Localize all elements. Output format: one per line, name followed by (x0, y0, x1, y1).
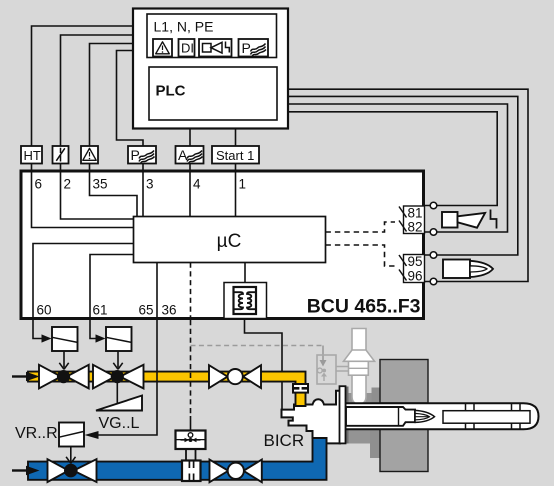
A-air box (176, 146, 204, 164)
wire PLC bottom to Start1 box (235, 129, 237, 147)
svg-text:36: 36 (162, 303, 177, 318)
switch box (53, 146, 69, 164)
solenoid actuator V1 (52, 327, 78, 351)
ghost funnel flare (344, 350, 375, 361)
wire switch to pin 2 to uC (61, 164, 134, 220)
ignition cable wire (245, 318, 283, 410)
air inlet arrow (12, 469, 27, 471)
gas valve V2 (93, 365, 115, 389)
gas pipe union fitting (293, 384, 308, 393)
microcontroller uC box (134, 217, 326, 263)
svg-text:1: 1 (239, 177, 247, 192)
arrow actuator V1 to valve (59, 351, 68, 369)
P-air icon box top (239, 39, 269, 57)
burner lance outer tube (346, 403, 539, 429)
svg-text:A: A (178, 147, 188, 163)
wire uC to ignition transformer (244, 263, 246, 283)
ghost air pressure sensor box (317, 355, 336, 384)
svg-text:81: 81 (408, 206, 423, 221)
Start1 box (212, 146, 259, 164)
dashed wire uC to relay 95-96 (326, 245, 396, 266)
BCU 465 main box (21, 171, 424, 319)
arrow actuator V2 to valve (113, 351, 122, 369)
svg-text:HT: HT (24, 148, 41, 163)
air butterfly control valve (210, 460, 229, 483)
wire uC to pin 60 (33, 244, 134, 320)
svg-text:VG..L: VG..L (99, 415, 140, 432)
ghost air supply pipe (352, 329, 366, 405)
wire terminal 61 to V2 actuator (90, 320, 96, 339)
wire PLC to HT box (32, 26, 134, 146)
relay contact box 95 96 (404, 255, 425, 283)
valve icon box (199, 39, 232, 57)
wire Start1 to pin 1 to uC (235, 164, 237, 217)
lance inner rod (443, 411, 530, 424)
flame at nozzle (415, 410, 435, 422)
terminal 81 circle and wire to PLC (288, 112, 497, 206)
wire PLC to switch box (61, 35, 134, 146)
svg-text:PLC: PLC (156, 83, 186, 100)
wire terminal 65 to VR actuator (98, 320, 157, 435)
ignition transformer box (224, 283, 267, 319)
gray band below burner tube (346, 429, 381, 444)
svg-text:6: 6 (35, 177, 43, 192)
ghost sensor connection lines (336, 367, 352, 372)
wire P-air to pin 3 to uC (142, 164, 144, 217)
wire uC to pin 65 (156, 263, 158, 320)
svg-text:Start 1: Start 1 (216, 148, 254, 163)
ghost butterfly valve body (349, 361, 369, 375)
wire A-air to pin 4 to uC (189, 164, 191, 217)
svg-text:P: P (131, 147, 140, 163)
wire PLC bottom to A-air box (189, 129, 191, 147)
arrow actuator VR to valve (66, 447, 75, 464)
burner nozzle (346, 407, 415, 426)
air valve VR (48, 459, 69, 482)
orifice fitting on air pipe (182, 461, 201, 482)
lance tick marks right pair (512, 403, 521, 429)
dashed wire terminal 36 below BCU (190, 320, 192, 416)
svg-text:4: 4 (193, 177, 201, 192)
svg-text:BCU 465..F3: BCU 465..F3 (307, 296, 421, 318)
P-air box (128, 146, 156, 164)
relay contact box 81 82 (404, 206, 425, 234)
transformer windings (235, 292, 244, 309)
burner flange (340, 386, 346, 443)
gas inlet arrow (12, 375, 27, 377)
VR..R actuator box (59, 423, 84, 447)
air pipe blue with elbow up to burner (28, 438, 327, 480)
PLC logic box (149, 67, 277, 120)
terminal 95 circle and wire to PLC (288, 96, 518, 255)
svg-text:DI: DI (181, 41, 194, 56)
wall collar upper (372, 388, 381, 404)
pin labels bottom row (37, 303, 177, 318)
wire terminal 60 to V1 actuator (33, 320, 42, 339)
svg-text:35: 35 (93, 177, 108, 192)
gas pipe yellow with elbow (28, 372, 306, 406)
solenoid actuator V2 (106, 327, 132, 351)
svg-text:61: 61 (93, 303, 108, 318)
furnace wall upper block (380, 360, 428, 404)
gas valve V1 (39, 365, 61, 389)
svg-text:P: P (242, 40, 251, 56)
furnace wall lower block (380, 425, 428, 472)
dark strip right of flange upper (346, 387, 349, 404)
slow-opening ramp symbol VG..L (116, 383, 118, 404)
dark strip right of flange lower (346, 429, 349, 444)
svg-text:L1, N, PE: L1, N, PE (154, 19, 214, 35)
wire warn to pin 35 to uC (90, 164, 138, 217)
alarm horn icon (442, 212, 458, 228)
HT box (21, 146, 42, 164)
detector legs (186, 449, 196, 461)
svg-text:3: 3 (146, 177, 154, 192)
svg-text:µC: µC (217, 231, 242, 252)
gas butterfly control valve (209, 365, 228, 388)
svg-text:65: 65 (138, 303, 153, 318)
svg-text:60: 60 (37, 303, 52, 318)
wire PLC to P-air box (117, 51, 144, 147)
svg-text:96: 96 (408, 269, 423, 284)
warn triangle box (81, 146, 98, 164)
svg-text:95: 95 (408, 254, 423, 269)
burner body BICR (282, 391, 341, 444)
lance tick marks left pair (466, 403, 475, 429)
warn icon box (153, 39, 172, 57)
wall collar lower (370, 429, 380, 458)
dashed wire uC to pin 36 (190, 263, 192, 320)
power module box L1 N PE (147, 14, 277, 58)
terminal 82 circle and wire to PLC (288, 104, 508, 232)
svg-text:2: 2 (64, 177, 72, 192)
wire PLC to warn box (90, 44, 134, 147)
air flow detector box (176, 431, 206, 450)
gray band above burner tube (346, 393, 381, 404)
ghost arrow into air sensor box (322, 346, 324, 361)
svg-text:VR..R: VR..R (15, 425, 58, 442)
svg-text:BICR: BICR (264, 431, 305, 450)
DI icon box (179, 39, 195, 57)
ghost dashed control line to air flow sensor (191, 345, 324, 347)
pin labels top row (35, 177, 247, 192)
terminal 96 circle and wire to PLC (288, 89, 528, 281)
ignition electrode icon (443, 260, 470, 279)
wire HT to pin 6 to uC (32, 164, 134, 228)
PLC outer box (133, 9, 288, 129)
svg-text:82: 82 (408, 220, 423, 235)
dashed wire uC to relay 81-82 (326, 222, 396, 232)
wire uC to pin 61 (90, 255, 134, 320)
